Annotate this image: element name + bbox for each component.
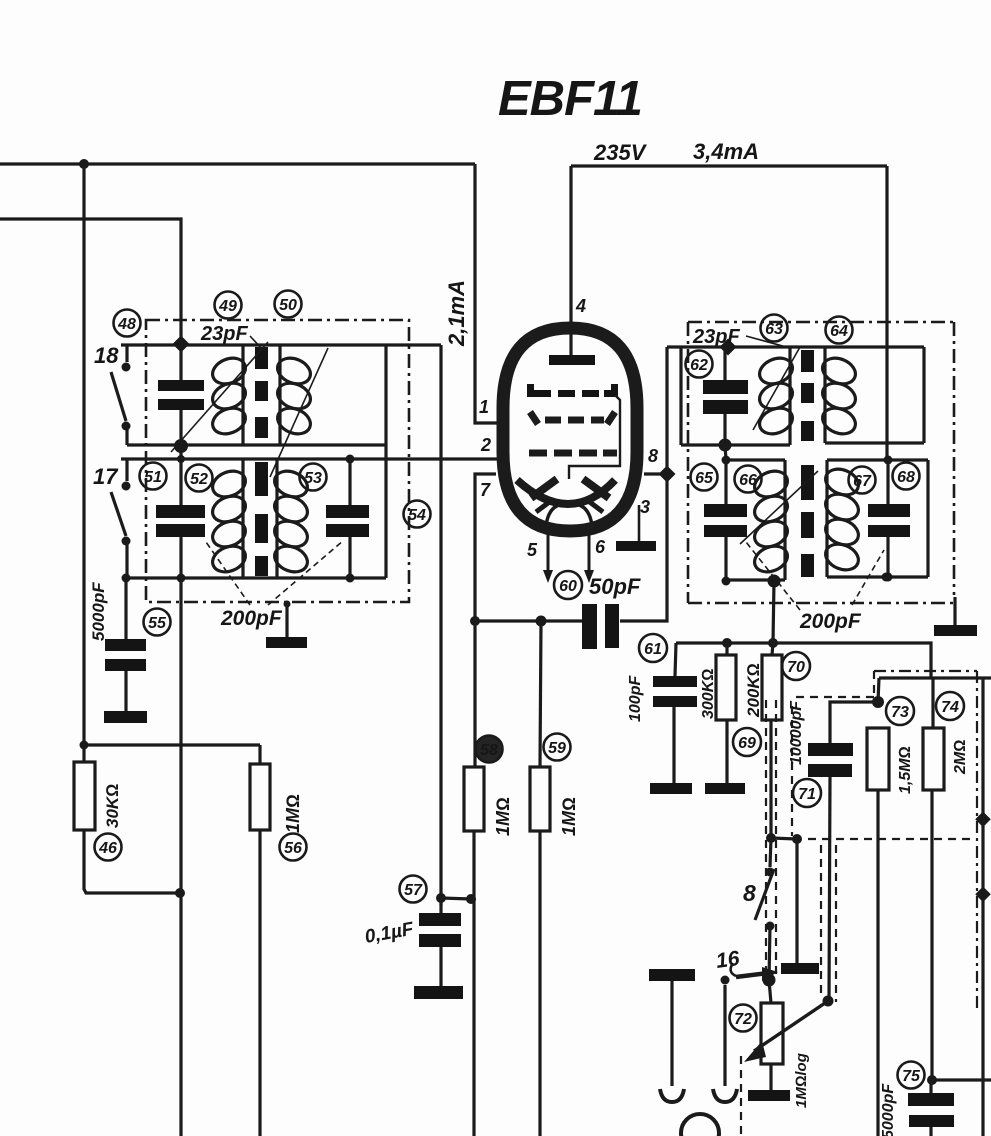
ref 50 xyxy=(275,291,302,318)
svg-text:10000pF: 10000pF xyxy=(788,700,805,765)
svg-text:7: 7 xyxy=(480,480,491,500)
wire second feed line y=219 xyxy=(0,219,181,344)
capacitor 61 100pF with ground xyxy=(650,643,697,794)
coil winding 49 xyxy=(209,354,250,439)
resistor 58 1M xyxy=(464,621,484,1136)
svg-text:1,5MΩ: 1,5MΩ xyxy=(897,746,914,794)
diode plate left inner tick xyxy=(536,500,552,512)
pickup source circle xyxy=(681,1114,719,1136)
node blob between right transformer windings xyxy=(719,439,732,452)
ref 56 xyxy=(280,834,307,861)
svg-text:72: 72 xyxy=(734,1011,752,1028)
capacitor 75 5000pF xyxy=(908,1080,954,1136)
svg-text:63: 63 xyxy=(765,321,783,338)
svg-text:48: 48 xyxy=(117,316,136,333)
wire vertical from rail junction down to resistor 46 xyxy=(82,164,85,745)
svg-text:68: 68 xyxy=(897,469,915,486)
ground of shield top right xyxy=(934,597,977,636)
svg-text:5000pF: 5000pF xyxy=(89,582,108,641)
shield dashed lines around volume control wiring xyxy=(741,671,975,1136)
wire lower-right box bottom edge xyxy=(827,575,928,578)
node junction secondary top xyxy=(177,455,185,463)
svg-text:71: 71 xyxy=(798,786,816,803)
wire right box edge x=386 xyxy=(384,345,387,578)
wire top-left supply rail xyxy=(0,162,475,165)
ref 69 xyxy=(733,728,761,756)
ref 74 xyxy=(936,692,964,720)
shield dash-dot vertical right xyxy=(976,671,978,1008)
capacitor 57 0,1uF with ground xyxy=(414,893,476,999)
svg-text:18: 18 xyxy=(94,343,119,368)
grid row 3 xyxy=(529,450,617,457)
ref 49 xyxy=(215,292,242,319)
resistor 74 2M xyxy=(923,678,944,1080)
svg-text:50: 50 xyxy=(279,297,297,314)
svg-text:67: 67 xyxy=(853,473,872,490)
pickup input live terminal xyxy=(713,985,737,1102)
ref 66 xyxy=(735,466,762,493)
node junction 73 top xyxy=(872,696,884,708)
svg-text:2MΩ: 2MΩ xyxy=(952,739,969,775)
wire top box bottom edge xyxy=(127,443,386,446)
node junction at bottom of 46 xyxy=(175,888,185,898)
node junction transformer bottom to rail xyxy=(882,573,891,582)
svg-text:1MΩ: 1MΩ xyxy=(559,797,579,836)
svg-text:70: 70 xyxy=(787,659,805,676)
ref 54 xyxy=(404,501,431,528)
ref 65 xyxy=(691,464,718,491)
svg-text:1MΩ: 1MΩ xyxy=(283,794,303,833)
shield dashed box IF transformer I xyxy=(146,320,409,602)
heater dome xyxy=(546,503,592,527)
resistor 46 30K xyxy=(74,745,180,893)
svg-text:1MΩlog: 1MΩlog xyxy=(793,1053,810,1108)
grid row 2 xyxy=(530,412,615,424)
svg-text:59: 59 xyxy=(548,740,566,757)
wire transformer top edge to x=441 drop xyxy=(121,343,441,346)
svg-text:50pF: 50pF xyxy=(589,574,641,599)
svg-text:49: 49 xyxy=(218,298,237,315)
ref 75 xyxy=(898,1062,925,1089)
svg-text:73: 73 xyxy=(891,704,909,721)
svg-text:2,1mA: 2,1mA xyxy=(444,280,469,347)
wire 200K feed from transformer xyxy=(772,581,774,655)
wiper arm of potentiometer 72 xyxy=(744,996,834,1063)
switch contact 16 xyxy=(721,963,779,985)
capacitor 55 5000pF xyxy=(104,574,147,724)
wire right winding spine xyxy=(278,345,281,445)
capacitor trimmer 62 xyxy=(703,339,748,445)
wire right box bottom edge xyxy=(825,441,924,444)
svg-text:6: 6 xyxy=(595,537,606,557)
ref 60 xyxy=(554,571,582,599)
wire right winding spine xyxy=(823,347,826,443)
ref 61 xyxy=(639,634,667,662)
diode plate right inner tick xyxy=(587,500,603,512)
node junction on rail at x=84 xyxy=(79,159,89,169)
svg-text:56: 56 xyxy=(284,840,302,857)
ref 62 xyxy=(686,351,713,378)
wire secondary top edge / grid wire to tube pin 2 xyxy=(121,457,497,460)
svg-text:200KΩ: 200KΩ xyxy=(744,663,763,718)
svg-text:54: 54 xyxy=(408,507,426,524)
wire top edge y=347 xyxy=(667,345,924,348)
leader line 200pF right pair xyxy=(746,542,884,610)
ref 57 xyxy=(400,876,427,903)
diode plate left xyxy=(531,479,557,498)
wire lower-left winding spine xyxy=(241,459,244,578)
capacitor trimmer 65 xyxy=(704,445,747,586)
switch contact 8 xyxy=(755,838,775,980)
potentiometer 72 1M log xyxy=(761,980,783,1090)
node diamond junction at transformer top xyxy=(173,336,190,353)
heater pin 5 with arrow xyxy=(543,525,553,583)
switch contact 18 xyxy=(111,345,131,445)
diode anode pin 3 plate xyxy=(616,505,656,551)
wire AVC bus y=745 xyxy=(84,743,260,746)
wire pin 4 anode feed xyxy=(569,166,572,324)
svg-text:74: 74 xyxy=(941,699,959,716)
coil winding 52 xyxy=(209,467,250,577)
svg-text:EBF11: EBF11 xyxy=(498,72,642,126)
node pin 8 diamond xyxy=(644,466,675,483)
coil winding 64 xyxy=(819,354,860,439)
node blob at 200K feed xyxy=(768,575,781,588)
capacitor 60 50pF xyxy=(582,604,619,649)
svg-text:53: 53 xyxy=(304,470,322,487)
svg-text:3: 3 xyxy=(640,497,650,517)
leader line 53 to core xyxy=(270,348,328,477)
capacitor 68 200pF xyxy=(868,456,910,582)
svg-text:30KΩ: 30KΩ xyxy=(103,784,122,828)
wire y=678 branch xyxy=(879,676,991,679)
shield dash-dot horizontal xyxy=(874,670,977,672)
wire left box left edge xyxy=(679,347,682,445)
ground under potentiometer xyxy=(748,1090,790,1101)
ref 70 xyxy=(782,652,810,680)
svg-text:300KΩ: 300KΩ xyxy=(700,668,717,719)
wire lower-left box bottom edge xyxy=(726,578,785,581)
wire lower-left box top edge xyxy=(726,458,785,461)
svg-text:46: 46 xyxy=(98,840,117,857)
wire left winding spine xyxy=(241,345,244,445)
svg-text:2: 2 xyxy=(480,435,491,455)
wire lower-right box top edge xyxy=(827,458,928,461)
leader line 63 to core xyxy=(753,347,800,430)
svg-text:60: 60 xyxy=(559,578,577,595)
resistor 59 1M xyxy=(530,621,550,1136)
ref 58 inked blob xyxy=(476,736,503,763)
resistor 56 1M xyxy=(250,745,270,1136)
svg-text:8: 8 xyxy=(743,880,756,906)
svg-text:8: 8 xyxy=(648,446,658,466)
capacitor 71 10000pF xyxy=(808,702,878,1001)
wire vertical x=441 down to capacitor 57 xyxy=(439,345,442,905)
svg-text:235V: 235V xyxy=(593,140,648,165)
leader line 23pF right xyxy=(746,336,790,348)
svg-text:200pF: 200pF xyxy=(220,607,283,630)
svg-text:100pF: 100pF xyxy=(627,675,644,722)
wire top-right supply rail 235V xyxy=(571,164,887,167)
ref 46 xyxy=(95,834,122,861)
ground under secondary caps xyxy=(266,601,307,649)
resistor 70 200K xyxy=(762,638,782,838)
wire lower-right box right edge xyxy=(926,460,929,577)
node junction 200K bottom xyxy=(766,833,776,843)
svg-text:5000pF: 5000pF xyxy=(880,1083,897,1136)
svg-text:1MΩ: 1MΩ xyxy=(493,797,513,836)
svg-text:4: 4 xyxy=(575,296,586,316)
ref 68 xyxy=(893,463,920,490)
ref 51 xyxy=(140,463,167,490)
svg-text:51: 51 xyxy=(144,469,162,486)
svg-text:69: 69 xyxy=(738,735,756,752)
iron core IF transformer I xyxy=(255,347,268,576)
svg-text:52: 52 xyxy=(190,471,208,488)
wire lower-left spine xyxy=(783,460,786,580)
ground terminal of pickup input xyxy=(649,969,695,1102)
leader line 200pF left pair xyxy=(206,540,344,605)
coil winding 53 area secondary xyxy=(271,467,312,577)
resistor 73 1,5M xyxy=(867,728,889,1136)
capacitor 53 200pF xyxy=(326,455,369,583)
capacitor trimmer 48 xyxy=(158,344,204,445)
wire left box bottom edge xyxy=(681,443,790,446)
svg-text:16: 16 xyxy=(714,947,741,973)
switch contact 17 xyxy=(111,459,131,578)
grid row 1 xyxy=(527,384,618,397)
svg-text:58: 58 xyxy=(480,742,498,759)
coil winding 63 xyxy=(756,354,797,439)
wire rail corner down to tube pin 1 xyxy=(475,164,497,423)
svg-text:55: 55 xyxy=(148,615,167,632)
ref 53 xyxy=(300,464,327,491)
wire pin 7 to junction xyxy=(475,474,496,621)
svg-text:57: 57 xyxy=(404,882,423,899)
node blob junction between windings xyxy=(174,439,188,453)
ref 64 xyxy=(826,317,853,344)
ref 63 xyxy=(761,315,788,342)
heater pin 6 with arrow xyxy=(584,525,594,583)
svg-text:62: 62 xyxy=(690,357,708,374)
svg-text:23pF: 23pF xyxy=(692,326,740,348)
svg-text:61: 61 xyxy=(644,641,662,658)
cathode arc xyxy=(517,480,615,504)
ground of AVC divider xyxy=(781,839,819,974)
electron tube EBF11 envelope xyxy=(503,328,637,531)
svg-text:1: 1 xyxy=(479,397,489,417)
iron core IF transformer II xyxy=(801,350,814,577)
svg-text:17: 17 xyxy=(93,464,119,489)
leader line 23pF left xyxy=(250,336,262,349)
svg-text:66: 66 xyxy=(739,472,757,489)
wire lower-right winding spine xyxy=(275,459,278,578)
IF transformer I: top winding box edges xyxy=(121,345,497,578)
wire branch down to resistor 73 xyxy=(878,678,879,702)
ref 73 xyxy=(886,697,914,725)
svg-text:75: 75 xyxy=(902,1068,921,1085)
wire cathode bus y=621 xyxy=(475,619,582,622)
node junction pot top xyxy=(763,974,776,987)
wire lower-right spine xyxy=(825,460,828,577)
anode plate pin 4 xyxy=(549,324,595,365)
svg-text:3,4mA: 3,4mA xyxy=(693,139,759,164)
svg-text:0,1µF: 0,1µF xyxy=(363,918,416,947)
resistor 69 300K with ground xyxy=(705,638,745,794)
wire to ground branch xyxy=(771,838,797,839)
wire 74 bottom to right edge xyxy=(932,1078,991,1081)
wire diode line x=667 xyxy=(620,347,667,621)
ref 67 xyxy=(849,467,876,494)
coil winding 50 xyxy=(274,354,315,439)
diode plate right xyxy=(583,479,609,498)
IF transformer II box edges xyxy=(667,347,928,580)
capacitor trimmer 51 xyxy=(156,445,205,578)
coil winding 66 xyxy=(751,467,792,577)
wire right rail down to IF transformer II xyxy=(885,166,888,460)
svg-text:23pF: 23pF xyxy=(200,323,248,345)
internal grid strap to cathode xyxy=(569,395,620,479)
ref 59 xyxy=(544,734,571,761)
wire right box right edge xyxy=(922,347,925,443)
svg-text:200pF: 200pF xyxy=(799,610,862,633)
shield dashed box IF transformer II xyxy=(688,322,954,603)
ref 52 xyxy=(186,465,213,492)
wire secondary bottom edge xyxy=(126,576,386,579)
node junction secondary bottom xyxy=(177,574,186,583)
wire x=181 down to page bottom xyxy=(179,578,182,1136)
ref 55 xyxy=(144,609,171,636)
wire x=983 with junction diamonds xyxy=(975,678,991,1136)
wire AVC bus y=643 xyxy=(676,643,931,678)
leader line 52 to core xyxy=(171,342,268,452)
coil winding 67 xyxy=(822,465,863,575)
svg-text:64: 64 xyxy=(830,323,848,340)
ref 72 xyxy=(730,1005,757,1032)
ref 71 xyxy=(793,779,821,807)
circled reference designators xyxy=(95,291,965,1089)
ref 48 xyxy=(114,310,141,337)
wire left winding spine xyxy=(788,347,791,445)
svg-text:5: 5 xyxy=(527,540,538,560)
svg-text:65: 65 xyxy=(695,470,714,487)
leader line 66 to core xyxy=(740,471,818,544)
